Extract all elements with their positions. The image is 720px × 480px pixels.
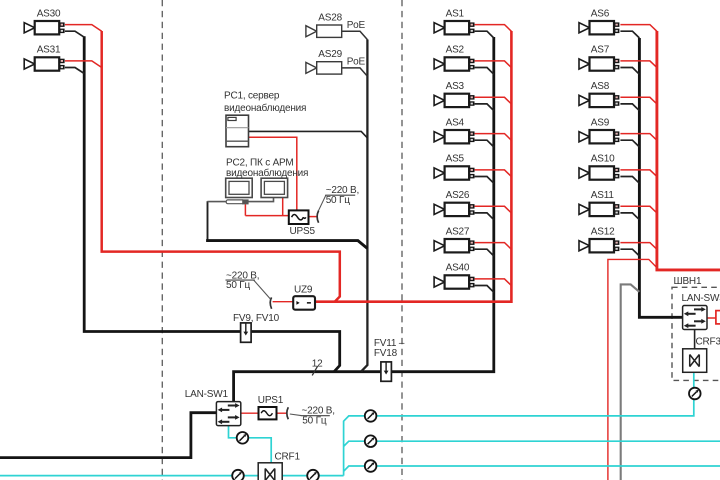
svg-text:50 Гц: 50 Гц — [226, 280, 251, 291]
wire AS6 power (red) — [620, 25, 657, 32]
wire LAN-SW3 to CRF3 (black) — [694, 329, 696, 348]
wire AS6 video (black) — [620, 31, 639, 38]
wire trunk of 12 cables to LAN-SW1 and video bus AS1-AS40 (black) — [234, 37, 494, 402]
wire LAN-SW1 to UPS1 (red) — [241, 412, 259, 414]
wire PC1 power from UPS5 (red) — [249, 137, 297, 210]
PC1 server tower — [226, 115, 249, 147]
power unit at right edge (red box) — [716, 311, 720, 324]
wire AS12 power (red) — [620, 243, 657, 250]
svg-text:видеонаблюдения: видеонаблюдения — [226, 167, 308, 179]
svg-text:AS1: AS1 — [446, 8, 465, 19]
surge protector CRF1 — [258, 463, 282, 480]
wire power bus AS1-AS40 from UZ9 (red) — [315, 31, 511, 302]
wire power bus AS30-AS31 (red) — [102, 31, 340, 302]
wire AS7 power (red) — [620, 61, 657, 68]
camera AS7 — [579, 57, 619, 70]
svg-text:50 Гц: 50 Гц — [302, 415, 327, 426]
svg-text:AS28: AS28 — [318, 12, 342, 23]
wire data branch to lower level (gray) — [621, 284, 640, 480]
wire AS10 power (red) — [620, 170, 657, 177]
wire AS3 power (red) — [475, 97, 512, 104]
wire PoE and PC data bus (black) — [361, 40, 367, 372]
svg-text:AS10: AS10 — [591, 154, 615, 165]
boundary dashed line (zone divider middle) — [401, 0, 403, 480]
svg-text:AS30: AS30 — [37, 8, 61, 19]
wire AS30 power (red) — [65, 25, 102, 32]
wire AS40 video (black) — [475, 286, 494, 293]
camera AS8 — [579, 94, 619, 107]
camera AS2 — [434, 57, 474, 70]
camera AS40 — [434, 275, 474, 288]
wire AS11 video (black) — [620, 213, 639, 220]
camera AS29 — [306, 62, 342, 74]
wire AS10 video (black) — [620, 177, 639, 184]
plug ~220V for UPS5 — [317, 211, 319, 223]
camera AS4 — [434, 130, 474, 143]
wire AS31 power (red) — [65, 61, 102, 68]
wire LAN-SW1 uplink (black) — [0, 413, 216, 458]
wire PC2 monitors power from UPS5 (red) — [245, 198, 288, 216]
camera AS31 — [24, 57, 64, 70]
label ~220V 50Hz (UZ9) — [226, 271, 260, 291]
SPD FV9, FV10 — [241, 323, 252, 342]
svg-text:AS12: AS12 — [591, 226, 615, 237]
svg-text:AS11: AS11 — [591, 190, 615, 201]
svg-text:CRF3: CRF3 — [696, 337, 720, 348]
svg-text:AS2: AS2 — [446, 45, 465, 56]
camera AS26 — [434, 203, 474, 216]
wire AS3 video (black) — [475, 104, 494, 111]
wire ground bus 3 (cyan) — [344, 466, 720, 471]
ground clamp g2 on ground bus 2 — [365, 435, 377, 447]
camera AS10 — [579, 166, 619, 179]
wire AS5 power (red) — [475, 170, 512, 177]
camera AS27 — [434, 239, 474, 252]
wire UPS1 220V input (red) — [277, 412, 287, 414]
camera AS9 — [579, 130, 619, 143]
UPS U1 (UPS1) — [259, 407, 277, 419]
svg-text:AS6: AS6 — [591, 8, 610, 19]
svg-text:AS29: AS29 — [318, 49, 342, 60]
wire AS29 PoE cable (black) — [342, 68, 368, 76]
wire AS1 video (black) — [475, 31, 494, 38]
svg-text:AS40: AS40 — [446, 263, 470, 274]
wire ground bus bottom (cyan) — [0, 475, 344, 477]
leader line UZ9 power label — [254, 280, 271, 299]
wire AS4 video (black) — [475, 140, 494, 147]
wire UPS5 220V input (red) — [309, 216, 318, 218]
svg-text:AS8: AS8 — [591, 81, 610, 92]
ground clamp g7 CRF3 ground — [689, 388, 701, 400]
svg-text:PC1, сервер: PC1, сервер — [224, 90, 280, 101]
svg-text:AS9: AS9 — [591, 117, 610, 128]
svg-text:FV9, FV10: FV9, FV10 — [233, 313, 280, 324]
wire 220V feed to UZ9 input (red) — [273, 301, 294, 303]
svg-text:UPS5: UPS5 — [290, 226, 316, 237]
switch LAN-SW3 — [683, 306, 707, 330]
wire AS4 power (red) — [475, 134, 512, 141]
camera AS5 — [434, 166, 474, 179]
leader line UPS1 power label — [290, 414, 301, 416]
wire ground riser and bus 1 (cyan) to CRF3 — [344, 372, 694, 476]
svg-text:LAN-SW3: LAN-SW3 — [682, 293, 720, 304]
label FV11-FV18 — [374, 338, 405, 359]
svg-text:видеонаблюдения: видеонаблюдения — [224, 102, 306, 114]
svg-text:UZ9: UZ9 — [294, 284, 313, 295]
wire PC1 server network (black) — [249, 131, 368, 138]
svg-text:PoE: PoE — [347, 20, 366, 31]
cable count tick 12 — [312, 359, 323, 376]
camera AS1 — [434, 21, 474, 34]
SPD FV11-FV18 — [381, 362, 392, 381]
svg-text:PC2, ПК с АРМ: PC2, ПК с АРМ — [226, 157, 294, 168]
wire AS12 video (black) — [620, 249, 639, 256]
wire PC2 workstation trunk horizontal (black) — [206, 241, 367, 249]
wire AS8 video (black) — [620, 104, 639, 111]
svg-text:12: 12 — [312, 359, 323, 370]
wire AS27 power (red) — [475, 243, 512, 250]
svg-text:FV18: FV18 — [374, 348, 398, 359]
svg-text:AS3: AS3 — [446, 81, 465, 92]
svg-text:AS26: AS26 — [446, 190, 470, 201]
svg-text:AS4: AS4 — [446, 117, 465, 128]
wire PC2 workstation trunk vertical (black) — [207, 201, 209, 240]
wire AS5 video (black) — [475, 177, 494, 184]
isolator UZ9 — [293, 296, 315, 310]
svg-text:AS7: AS7 — [591, 45, 610, 56]
switch LAN-SW1 — [216, 402, 240, 426]
wire AS8 power (red) — [620, 97, 657, 104]
wire AS2 power (red) — [475, 61, 512, 68]
wire AS1 power (red) — [475, 25, 512, 32]
wire ground bus 2 (cyan) — [344, 441, 720, 446]
wire LAN-SW3 to power unit (red) — [707, 317, 716, 319]
PC2 monitor 2 — [261, 178, 288, 197]
camera AS28 — [306, 25, 342, 37]
wire AS9 power (red) — [620, 134, 657, 141]
svg-text:50 Гц: 50 Гц — [326, 195, 351, 206]
enclosure ShVN1 dashed box — [672, 287, 720, 380]
camera AS3 — [434, 94, 474, 107]
wire power branch to lower level (red) — [608, 259, 657, 480]
surge protector CRF3 — [683, 349, 707, 373]
wire AS7 video (black) — [620, 68, 639, 75]
wire LAN-SW1 ground to CRF1 (cyan) — [229, 426, 272, 463]
svg-text:PoE: PoE — [347, 57, 366, 68]
camera AS30 — [24, 21, 64, 34]
wire AS31 video (black) — [65, 68, 84, 74]
svg-text:AS27: AS27 — [446, 226, 470, 237]
svg-text:LAN-SW1: LAN-SW1 — [185, 389, 229, 400]
ground clamp g6 LAN-SW1 ground — [237, 432, 249, 444]
boundary dashed line (zone divider left) — [161, 0, 163, 480]
wire AS11 power (red) — [620, 206, 657, 213]
camera AS6 — [579, 21, 619, 34]
ground clamp g1 on ground bus 1 — [365, 410, 377, 422]
ground clamp g4 on bottom ground bus — [232, 470, 244, 480]
plug ~220V for UPS1 — [287, 407, 289, 419]
wire video bus AS30-AS31 (black) — [84, 36, 340, 371]
wire AS28 PoE cable (black) — [342, 31, 368, 39]
svg-text:UPS1: UPS1 — [258, 395, 284, 406]
label ~220V 50Hz (UPS5) — [325, 185, 359, 206]
wire AS27 video (black) — [475, 249, 494, 256]
wire AS40 power (red) — [475, 279, 512, 286]
svg-text:AS31: AS31 — [37, 45, 61, 56]
UPS U5 (UPS5) — [289, 210, 309, 224]
ground clamp g5 on bottom ground bus — [307, 470, 319, 480]
wire AS26 power (red) — [475, 206, 512, 213]
wire AS2 video (black) — [475, 68, 494, 75]
wire AS9 video (black) — [620, 140, 639, 147]
ground clamp g3 on ground bus 3 — [365, 460, 377, 472]
camera AS12 — [579, 239, 619, 252]
wire AS30 video (black) — [65, 31, 84, 37]
label ~220V 50Hz (UPS1) — [301, 405, 335, 426]
PC2 monitor 1 — [226, 178, 253, 204]
camera AS11 — [579, 203, 619, 216]
svg-text:AS5: AS5 — [446, 154, 465, 165]
wire video bus AS6-AS12 to LAN-SW3 (black) — [639, 38, 682, 317]
wire AS26 video (black) — [475, 213, 494, 220]
plug ~220V for UZ9 — [270, 297, 271, 308]
leader line UPS5 power label — [318, 195, 325, 211]
wire monitors network link (gray) — [207, 198, 273, 202]
wire power bus AS6-AS12 (red) — [657, 31, 720, 270]
svg-text:CRF1: CRF1 — [275, 451, 301, 462]
svg-text:ШВН1: ШВН1 — [674, 276, 702, 287]
